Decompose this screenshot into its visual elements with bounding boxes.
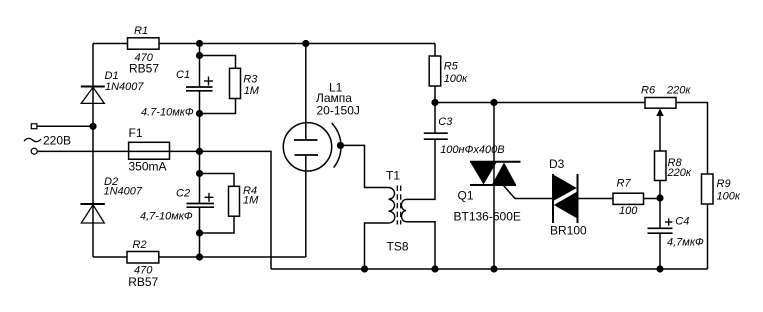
diode D1 — [81, 87, 105, 104]
svg-text:RB57: RB57 — [129, 61, 159, 75]
wire R8 bottom lead — [659, 181, 661, 199]
junction node C2 bottom — [196, 229, 203, 236]
transformer T1 primary winding — [389, 188, 395, 224]
capacitor C1 polarity plus — [204, 77, 213, 86]
junction node lamp arc tap — [337, 142, 344, 149]
wire left vertical (D1/D2 branch) — [92, 44, 94, 258]
resistor R3 — [230, 68, 241, 98]
svg-text:TS8: TS8 — [387, 240, 409, 254]
wire R2 row — [93, 256, 306, 258]
wire triac vertical — [493, 103, 495, 270]
wire R4 bottom branch — [200, 216, 235, 233]
wire gate rail R5 to R6 — [435, 102, 645, 104]
svg-text:1M: 1M — [243, 195, 259, 207]
svg-text:1M: 1M — [244, 85, 260, 97]
svg-text:220к: 220к — [667, 167, 692, 179]
resistor R5 — [429, 56, 441, 86]
wire R4 top branch — [200, 174, 235, 187]
wire R5 bottom lead — [434, 86, 436, 103]
AC input bottom terminal — [31, 148, 37, 154]
capacitor C2 — [187, 204, 215, 208]
svg-text:1N4007: 1N4007 — [104, 186, 143, 198]
wire R6 wiper stem — [659, 113, 661, 151]
junction node R5 bottom / C3 — [431, 99, 438, 106]
svg-text:BR100: BR100 — [550, 224, 587, 238]
wire transformer secondary bottom lead — [406, 222, 435, 269]
potentiometer R6 wiper arrow — [656, 109, 663, 117]
transformer T1 secondary winding — [401, 199, 406, 221]
lamp L1 — [283, 123, 331, 171]
svg-text:C3: C3 — [438, 116, 453, 128]
junction node C4 / bottom rail — [656, 265, 663, 272]
junction node triac bottom / bottom rail — [490, 265, 497, 272]
wire R3 top branch — [200, 56, 236, 69]
svg-text:350mA: 350mA — [129, 160, 167, 174]
junction node R7/R8/C4 — [656, 194, 663, 201]
wire D3 to R7 — [578, 198, 614, 200]
svg-text:R7: R7 — [617, 178, 632, 190]
junction node C1 bottom — [196, 110, 203, 117]
svg-text:C4: C4 — [675, 216, 689, 228]
svg-text:100к: 100к — [717, 191, 741, 203]
wire lamp bottom stem — [305, 155, 307, 257]
svg-text:20-150J: 20-150J — [317, 104, 360, 118]
svg-text:D3: D3 — [549, 157, 565, 171]
junction node triac top — [490, 99, 497, 106]
wire C3 bottom stem to transformer secondary top — [406, 139, 435, 199]
svg-text:R9: R9 — [717, 178, 731, 190]
wire AC top terminal to left vertical — [37, 125, 93, 127]
svg-text:R3: R3 — [243, 73, 258, 85]
wire F1 node right then down to bottom rail — [200, 151, 272, 269]
svg-text:R5: R5 — [444, 61, 459, 73]
svg-text:4,7-10мкФ: 4,7-10мкФ — [140, 210, 193, 222]
svg-text:Q1: Q1 — [458, 189, 474, 203]
junction node R2 row / mid vertical — [196, 253, 203, 260]
wire C4 top stem — [659, 199, 661, 228]
diac D3 — [553, 174, 578, 223]
wire R6 right lead — [676, 103, 708, 175]
capacitor C2 polarity plus — [205, 193, 214, 202]
junction node top rail / mid vertical — [196, 40, 203, 47]
diode D2 — [81, 204, 105, 223]
wire C3 top stem — [434, 103, 436, 134]
wire lamp top stem — [305, 44, 307, 141]
junction node R4 top branch — [196, 170, 203, 177]
capacitor C1 — [186, 87, 213, 91]
resistor R7 — [613, 193, 644, 204]
AC input top terminal — [31, 124, 37, 129]
svg-text:100нФх400В: 100нФх400В — [440, 144, 504, 156]
junction node F1 / mid vertical — [196, 148, 203, 155]
wire R7 to node — [644, 198, 661, 200]
svg-text:RB57: RB57 — [128, 275, 158, 289]
capacitor C4 — [648, 228, 673, 233]
junction node top rail / lamp stem — [302, 40, 309, 47]
resistor R2 — [127, 252, 159, 264]
wire R9 bottom lead — [707, 204, 709, 269]
resistor R9 — [702, 174, 714, 204]
AC sine squiggle — [24, 138, 41, 141]
svg-text:T1: T1 — [386, 169, 400, 183]
wire AC bottom terminal through F1 to mid vertical — [37, 150, 199, 152]
wire transformer primary bottom lead — [365, 223, 389, 269]
resistor R4 — [229, 186, 240, 216]
svg-text:4.7-10мкФ: 4.7-10мкФ — [141, 107, 194, 119]
wire top rail — [93, 43, 435, 45]
svg-text:BT136-600E: BT136-600E — [454, 210, 521, 224]
wire mid vertical upper segment — [199, 44, 201, 88]
fuse F1 — [129, 142, 170, 159]
svg-text:C1: C1 — [176, 69, 190, 81]
wire C4 bottom stem — [659, 234, 661, 269]
svg-text:1N4007: 1N4007 — [105, 81, 144, 93]
capacitor C3 — [424, 133, 448, 139]
svg-text:4,7мкФ: 4,7мкФ — [667, 236, 704, 248]
wire mid vertical lower segment — [199, 207, 201, 257]
svg-text:R6: R6 — [641, 85, 656, 97]
wire R3 bottom branch — [200, 99, 236, 114]
svg-text:F1: F1 — [129, 126, 143, 140]
svg-text:220к: 220к — [666, 85, 691, 97]
wire mid vertical middle segment — [199, 91, 201, 204]
svg-text:C2: C2 — [176, 187, 190, 199]
potentiometer R6 body — [645, 98, 676, 109]
svg-text:220В: 220В — [43, 134, 71, 148]
wire bottom rail — [271, 268, 708, 270]
svg-text:R2: R2 — [133, 239, 147, 251]
wire R5 vertical top lead — [434, 44, 436, 57]
junction node R3 top branch — [196, 52, 203, 59]
lamp L1 side arc — [332, 123, 341, 168]
svg-text:R1: R1 — [134, 25, 148, 37]
svg-text:100к: 100к — [444, 73, 468, 85]
svg-text:100: 100 — [619, 205, 638, 217]
junction node AC top / left vertical — [89, 123, 96, 130]
junction node transformer secondary / bottom rail — [431, 265, 438, 272]
transformer T1 core — [397, 186, 400, 225]
resistor R1 — [128, 38, 160, 49]
triac Q1 — [470, 162, 521, 185]
wire triac gate to D3 — [504, 186, 554, 199]
junction node transformer primary / bottom rail — [361, 265, 368, 272]
wire lamp arc tap to transformer primary — [341, 145, 389, 187]
capacitor C4 polarity plus — [665, 218, 672, 225]
resistor R8 — [655, 151, 667, 181]
